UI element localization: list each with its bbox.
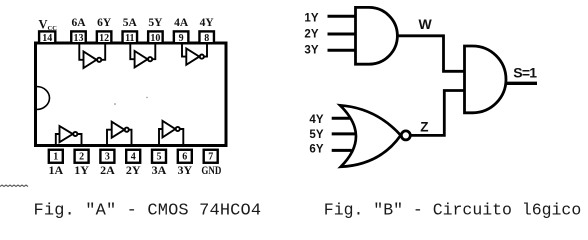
svg-text:4A: 4A [174, 17, 189, 29]
svg-text:8: 8 [204, 33, 209, 44]
svg-text:2A: 2A [100, 163, 115, 177]
svg-text:1A: 1A [48, 163, 63, 177]
svg-text:10: 10 [150, 33, 160, 44]
svg-text:S=1: S=1 [513, 65, 537, 81]
svg-text:12: 12 [99, 33, 109, 44]
svg-text:1Y: 1Y [304, 12, 318, 24]
svg-text:5: 5 [157, 152, 162, 163]
svg-text:GND: GND [201, 163, 221, 177]
svg-text:3A: 3A [152, 163, 167, 177]
svg-text:14: 14 [42, 33, 52, 44]
svg-text:2: 2 [79, 152, 84, 163]
svg-text:6A: 6A [71, 17, 86, 29]
svg-text:7: 7 [208, 152, 213, 163]
svg-text:W: W [419, 16, 433, 32]
svg-text:2Y: 2Y [126, 163, 141, 177]
svg-text:5Y: 5Y [148, 17, 163, 29]
svg-text:6Y: 6Y [97, 17, 112, 29]
svg-text:4Y: 4Y [200, 17, 215, 29]
svg-text:11: 11 [125, 33, 134, 44]
svg-text:5A: 5A [123, 17, 138, 29]
svg-text:4: 4 [131, 152, 136, 163]
svg-text:4Y: 4Y [309, 114, 323, 126]
svg-text:1: 1 [53, 152, 58, 163]
svg-text:Z: Z [420, 119, 428, 134]
svg-text:1Y: 1Y [74, 163, 89, 177]
svg-text:13: 13 [74, 33, 84, 44]
svg-text:3: 3 [105, 152, 110, 163]
svg-text:Fig. "A" - CMOS 74HCO4: Fig. "A" - CMOS 74HCO4 [34, 202, 262, 221]
svg-text:2Y: 2Y [304, 28, 318, 40]
svg-text:3Y: 3Y [304, 44, 318, 56]
svg-text:Fig. "B" - Circuito l6gico: Fig. "B" - Circuito l6gico [324, 201, 581, 220]
svg-text:6Y: 6Y [309, 144, 323, 156]
svg-text:6: 6 [182, 152, 187, 163]
svg-text:3Y: 3Y [177, 163, 192, 177]
svg-text:9: 9 [179, 33, 184, 44]
svg-text:5Y: 5Y [309, 129, 323, 141]
svg-text:VCC: VCC [39, 18, 58, 33]
